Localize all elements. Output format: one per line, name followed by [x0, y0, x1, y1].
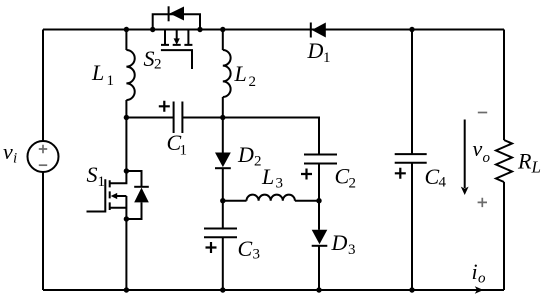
svg-text:C: C — [238, 236, 253, 261]
svg-text:2: 2 — [154, 57, 162, 73]
svg-text:C: C — [425, 164, 440, 189]
svg-text:L: L — [91, 60, 104, 85]
svg-text:i: i — [13, 151, 17, 167]
svg-text:D: D — [307, 38, 324, 63]
svg-text:2: 2 — [349, 176, 357, 192]
svg-text:2: 2 — [249, 74, 257, 90]
svg-text:1: 1 — [98, 174, 106, 190]
svg-text:L: L — [234, 61, 247, 86]
svg-text:1: 1 — [107, 73, 115, 89]
svg-text:1: 1 — [323, 50, 331, 66]
svg-text:2: 2 — [254, 154, 262, 170]
svg-text:3: 3 — [253, 247, 261, 263]
svg-text:o: o — [478, 271, 486, 287]
svg-text:C: C — [335, 164, 350, 189]
svg-text:v: v — [3, 139, 13, 164]
svg-text:o: o — [483, 150, 491, 166]
svg-text:S: S — [144, 46, 155, 71]
svg-text:i: i — [472, 259, 478, 284]
svg-text:1: 1 — [180, 143, 188, 159]
svg-text:3: 3 — [276, 176, 284, 192]
svg-text:D: D — [331, 230, 348, 255]
svg-text:S: S — [87, 162, 98, 187]
svg-text:L: L — [531, 158, 541, 177]
svg-text:D: D — [237, 142, 254, 167]
svg-text:3: 3 — [348, 242, 356, 258]
svg-text:4: 4 — [439, 175, 447, 191]
svg-text:R: R — [517, 149, 532, 174]
svg-text:v: v — [473, 136, 483, 161]
svg-text:L: L — [261, 164, 274, 189]
